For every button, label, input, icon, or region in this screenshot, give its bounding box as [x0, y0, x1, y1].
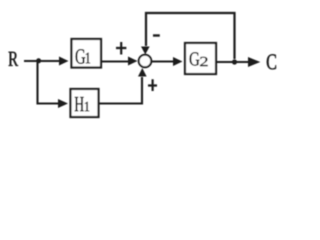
summing junction circle	[139, 55, 152, 68]
arrowhead into junction left	[128, 57, 138, 66]
block G1	[72, 39, 102, 68]
sign + at G1 feed	[116, 42, 126, 55]
arrowhead to C	[248, 57, 260, 67]
arrowhead into G2	[173, 57, 183, 66]
wire branch down to H1	[38, 61, 59, 104]
node takeoff dot after G2	[232, 59, 237, 64]
wire feedback rail from junction top to takeoff node	[146, 13, 235, 59]
wire G1 to summing junction	[102, 60, 129, 62]
node C (output label)	[267, 54, 276, 69]
wire junction to G2	[152, 60, 175, 62]
wire G2 to C	[216, 61, 249, 63]
arrowhead into junction top	[141, 47, 150, 55]
wire H1 to summing junction	[100, 77, 143, 104]
node branch dot on R line	[36, 58, 41, 63]
arrowhead into G1	[59, 57, 69, 66]
arrowhead into junction bottom	[138, 68, 147, 77]
label H1	[75, 97, 89, 111]
sign + at H1 feed	[148, 79, 157, 91]
sign - at feedback feed	[153, 34, 160, 36]
wire R to G1	[24, 60, 60, 62]
node R (input label)	[9, 52, 19, 66]
block H1	[71, 89, 99, 117]
label G2	[190, 52, 208, 66]
arrowhead into H1	[58, 99, 68, 108]
label G1	[76, 49, 91, 64]
block G2	[185, 43, 216, 74]
